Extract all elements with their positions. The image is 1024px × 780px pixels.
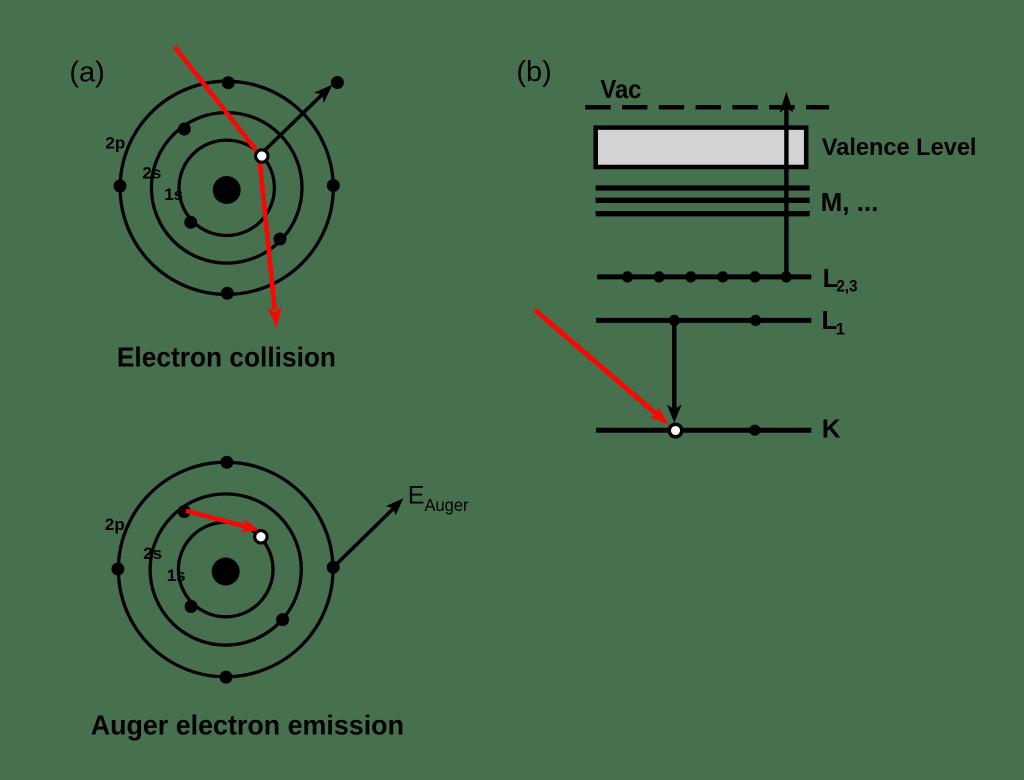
valence level box bbox=[596, 128, 807, 167]
electron dots (a) bbox=[222, 76, 235, 89]
white hole dot (a2) bbox=[255, 531, 267, 543]
svg-text:M, ...: M, ... bbox=[821, 187, 879, 217]
K level line bbox=[596, 428, 811, 433]
svg-text:Auger electron emission: Auger electron emission bbox=[91, 709, 404, 740]
nucleus (a2) bbox=[212, 558, 240, 586]
vacuum dashed line bbox=[585, 105, 829, 110]
shell 2s circle (a2) bbox=[150, 494, 301, 645]
shell 1s circle (a2) bbox=[178, 522, 273, 617]
L1 electron dots bbox=[669, 315, 680, 326]
red incident arrow (b) bbox=[535, 310, 658, 415]
svg-text:1s: 1s bbox=[164, 185, 183, 204]
shell 1s circle (a) bbox=[179, 140, 274, 235]
svg-text:2,3: 2,3 bbox=[837, 278, 858, 296]
svg-text:Valence Level: Valence Level bbox=[822, 134, 977, 161]
L1 level line bbox=[596, 318, 811, 323]
M level lines bbox=[596, 185, 810, 190]
svg-text:Vac: Vac bbox=[600, 74, 641, 104]
electron dots (a2) bbox=[220, 456, 233, 469]
white hole dot (a) bbox=[256, 150, 268, 162]
red incoming electron arrow (a) bbox=[175, 47, 275, 311]
svg-text:(a): (a) bbox=[69, 57, 104, 89]
L2,3 level line bbox=[597, 274, 811, 279]
shell 2p circle (a) bbox=[120, 81, 333, 294]
ejected electron dot (a) bbox=[331, 76, 344, 89]
K electron dot bbox=[749, 425, 760, 436]
svg-text:2s: 2s bbox=[143, 544, 162, 563]
shell 2s circle (a) bbox=[151, 113, 302, 264]
black Auger electron arrow (a2) bbox=[333, 508, 394, 568]
nucleus (a) bbox=[213, 176, 241, 204]
shell 2p circle (a2) bbox=[118, 462, 333, 677]
svg-text:2s: 2s bbox=[142, 163, 161, 182]
svg-text:Electron collision: Electron collision bbox=[117, 342, 336, 373]
red transition arrow (a2) bbox=[186, 511, 247, 527]
svg-text:2p: 2p bbox=[105, 515, 125, 534]
vertical emission arrow (up) bbox=[784, 108, 788, 277]
K white hole dot bbox=[669, 424, 682, 437]
svg-text:K: K bbox=[822, 413, 841, 443]
svg-text:2p: 2p bbox=[105, 134, 125, 153]
L2,3 electron dots bbox=[622, 271, 633, 282]
black ejected electron arrow (a) bbox=[262, 94, 323, 153]
svg-text:(b): (b) bbox=[516, 56, 551, 88]
vertical transition arrow (down) L1 to K bbox=[672, 320, 676, 408]
svg-text:1: 1 bbox=[836, 321, 845, 339]
svg-text:1s: 1s bbox=[167, 566, 186, 585]
